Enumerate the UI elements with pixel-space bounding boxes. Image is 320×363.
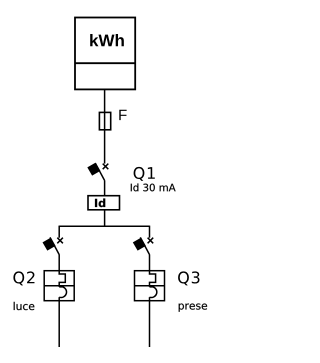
Q2 label [13,271,34,285]
breaker Q3 blade [140,237,149,255]
breaker Q1 contact cross [103,164,109,170]
breaker Q2 trip flag [43,238,55,250]
MCB Q3 device box [135,271,165,301]
wire meter to breaker Q1 [104,89,106,163]
wire Q2 to MCB [58,255,60,271]
kWh meter [75,18,135,90]
Id label [95,198,105,207]
Q1 label [134,167,155,181]
Q3 label [178,271,199,285]
bus wire [59,225,149,227]
fuse F [99,112,110,129]
MCB Q3 magnetic release [150,287,157,298]
breaker Q3 trip flag [134,238,146,250]
wire RCD to bus [104,210,106,227]
wire Q1 to RCD [104,181,106,196]
prese label [179,304,207,312]
breaker Q1 trip flag [88,163,100,175]
Id 30 mA label [131,183,176,191]
wire MCB Q3 down [149,297,151,347]
breaker Q2 contact cross [57,238,63,244]
F value label [119,110,126,120]
kWh label [90,34,124,46]
breaker Q2 blade [50,237,59,255]
MCB Q2 device box [44,271,74,301]
wire MCB Q2 down [58,297,60,347]
MCB Q2 thermal release [59,271,65,287]
breaker Q3 contact cross [148,238,154,244]
wire bus to breaker Q3 [149,226,151,238]
RCD Id box [88,196,120,210]
luce label [14,302,35,310]
wire bus to breaker Q2 [58,226,60,238]
MCB Q2 magnetic release [59,287,66,298]
MCB Q3 thermal release [150,271,156,287]
breaker Q1 blade [95,163,104,181]
wire Q3 to MCB [149,255,151,271]
